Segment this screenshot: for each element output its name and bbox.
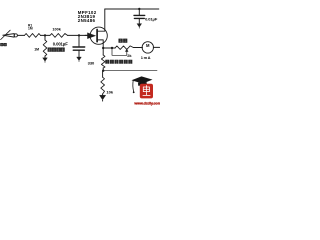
drain lead [98,9,105,31]
capacitor C2 0.01uF plates [134,14,145,16]
wire rail down to C2 [138,9,140,15]
potentiometer wiper loop [112,48,127,55]
ground below C2 [137,24,142,29]
top rail [105,8,159,10]
wire 1M to ground [44,56,46,58]
svg-text:0.01μF: 0.01μF [145,16,158,21]
transistor Q1 circle [90,27,107,44]
wire 330 to bottom rail [102,68,104,71]
wiper arrowhead [125,49,128,52]
svg-text:100k: 100k [52,27,61,31]
text sensitivity pot note (CJK) [106,60,109,63]
junction node rail/C2 [138,8,140,10]
wire gate node down to C1 [78,35,80,46]
junction node source row [102,47,104,49]
junction node gate/1M [44,34,46,36]
wire R1 to 100k [41,34,51,36]
svg-text:2N5486: 2N5486 [78,18,96,23]
watermark logo: red seal with character [140,84,153,99]
wire source node to 330 [102,48,104,55]
resistor R1 1M horizontal zigzag [25,34,41,38]
svg-text:1M: 1M [28,26,33,30]
wire rail down to 10k [102,71,104,78]
junction node pot wiper [111,47,113,49]
wire 10k to ground [102,94,104,95]
junction node gate/C1 [78,34,80,36]
svg-text:10k: 10k [106,89,113,94]
capacitor C1 0.001uF plates [73,46,85,48]
svg-text:0.001μF: 0.001μF [53,41,68,46]
svg-text:1M: 1M [34,47,39,51]
wire 100k to gate [68,34,89,36]
antenna rod diagonal [1,30,11,39]
gate lead [85,34,90,36]
ground below C1 [77,57,82,62]
text calibrate (CJK) [119,39,123,43]
resistor 1M vertical zigzag [43,40,47,56]
wire gate node down to 1M [44,35,46,40]
bottom rail [103,70,157,72]
resistor 10k vertical zigzag [101,77,105,94]
resistor 100k horizontal zigzag [50,34,68,38]
wire meter to right edge [153,46,159,48]
wire pot to meter [134,47,143,49]
svg-text:www.dzdiy.com: www.dzdiy.com [133,102,160,106]
wire source row to pot [103,47,115,49]
wire C1 to ground [78,51,80,57]
meter M circle [142,42,153,53]
wire antenna to R1 [17,34,24,36]
antenna wedge body [3,34,14,38]
antenna end ring [14,34,17,37]
ground below 1M [43,58,48,63]
transistor channel bar [96,30,98,42]
watermark logo: mortarboard cap [132,76,153,93]
text bypass capacitor (CJK) [48,48,52,52]
source lead [98,40,103,48]
potentiometer 2k zigzag [115,46,133,50]
wire C2 to ground [138,19,140,24]
gate arrow [87,33,95,39]
text antenna (CJK) [0,43,3,46]
svg-text:330: 330 [88,60,95,65]
svg-text:1mA: 1mA [141,55,151,60]
svg-text:M: M [146,43,150,48]
ground below 10k [99,95,105,101]
junction node bottom rail [102,70,104,72]
resistor 330 vertical zigzag [101,55,105,68]
